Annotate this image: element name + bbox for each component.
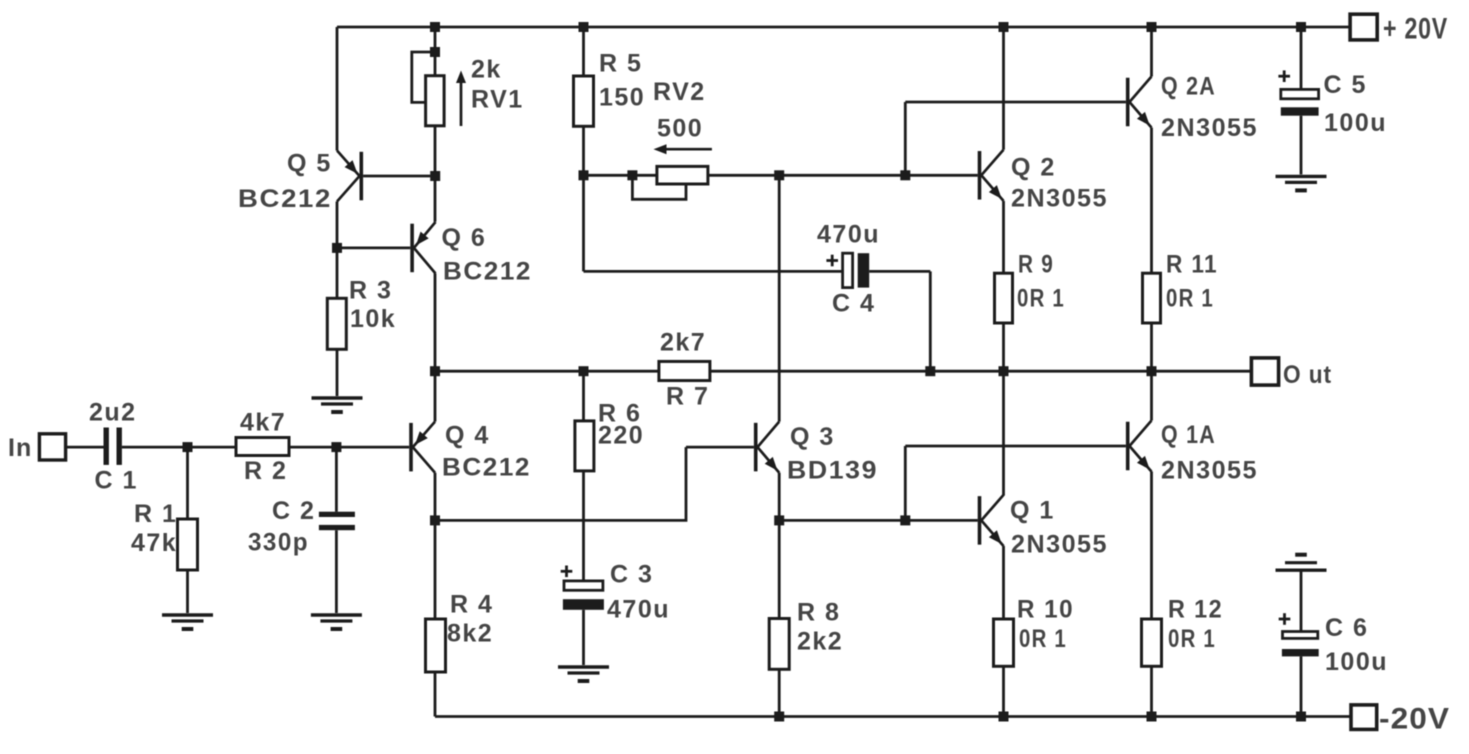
svg-text:2u2: 2u2 [89,399,137,427]
svg-text:0R 1: 0R 1 [1166,285,1214,313]
svg-text:0R 1: 0R 1 [1019,625,1067,653]
svg-text:0R 1: 0R 1 [1017,285,1065,313]
svg-text:C 3: C 3 [610,561,653,589]
svg-text:R 9: R 9 [1018,251,1054,279]
svg-text:2k2: 2k2 [797,628,843,656]
svg-text:R 10: R 10 [1017,596,1074,624]
svg-text:Q 2: Q 2 [1011,153,1056,181]
svg-text:8k2: 8k2 [447,620,493,648]
svg-text:R 2: R 2 [244,457,287,485]
svg-text:Q 3: Q 3 [790,423,835,451]
svg-text:500: 500 [657,115,703,143]
svg-text:2N3055: 2N3055 [1011,185,1108,213]
svg-text:Q 1: Q 1 [1010,497,1055,525]
svg-text:-20V: -20V [1379,703,1450,736]
svg-text:+ 20V: + 20V [1383,13,1448,46]
svg-text:C 4: C 4 [832,290,875,318]
svg-text:Q 4: Q 4 [445,422,490,450]
svg-text:2N3055: 2N3055 [1161,114,1258,142]
svg-text:Q 1A: Q 1A [1161,421,1216,449]
svg-text:R 1: R 1 [134,500,177,528]
svg-text:R 4: R 4 [450,591,493,619]
svg-text:470u: 470u [607,596,670,624]
svg-text:150: 150 [599,84,645,112]
svg-text:C 1: C 1 [95,467,138,495]
svg-text:Q 5: Q 5 [287,150,332,178]
svg-text:0R 1: 0R 1 [1168,625,1216,653]
svg-text:RV1: RV1 [471,86,524,114]
svg-text:C 2: C 2 [272,497,315,525]
svg-text:100u: 100u [1325,648,1388,676]
svg-text:RV2: RV2 [653,78,706,106]
svg-text:R 8: R 8 [797,599,840,627]
svg-text:2N3055: 2N3055 [1011,531,1108,559]
svg-text:10k: 10k [350,305,396,333]
svg-text:BD139: BD139 [787,457,878,485]
svg-text:R 11: R 11 [1166,251,1218,279]
svg-text:330p: 330p [248,529,309,557]
svg-text:2N3055: 2N3055 [1161,457,1258,485]
svg-text:BC212: BC212 [442,454,531,482]
svg-text:O ut: O ut [1283,361,1332,389]
svg-text:C 6: C 6 [1325,614,1368,642]
svg-text:2k: 2k [471,56,502,84]
svg-text:R 12: R 12 [1168,596,1223,624]
svg-text:C 5: C 5 [1324,71,1367,99]
svg-text:2k7: 2k7 [660,329,706,357]
svg-text:Q 6: Q 6 [442,224,487,252]
svg-text:R 7: R 7 [666,383,709,411]
svg-text:BC212: BC212 [443,258,532,286]
svg-text:47k: 47k [131,529,177,557]
svg-text:BC212: BC212 [238,185,332,213]
svg-text:220: 220 [598,422,644,450]
svg-text:470u: 470u [817,221,880,249]
svg-text:100u: 100u [1324,109,1387,137]
svg-text:4k7: 4k7 [240,409,286,437]
svg-text:Q 2A: Q 2A [1161,73,1216,101]
svg-text:R 5: R 5 [599,50,642,78]
svg-text:In: In [8,434,32,462]
svg-text:R 3: R 3 [349,277,392,305]
